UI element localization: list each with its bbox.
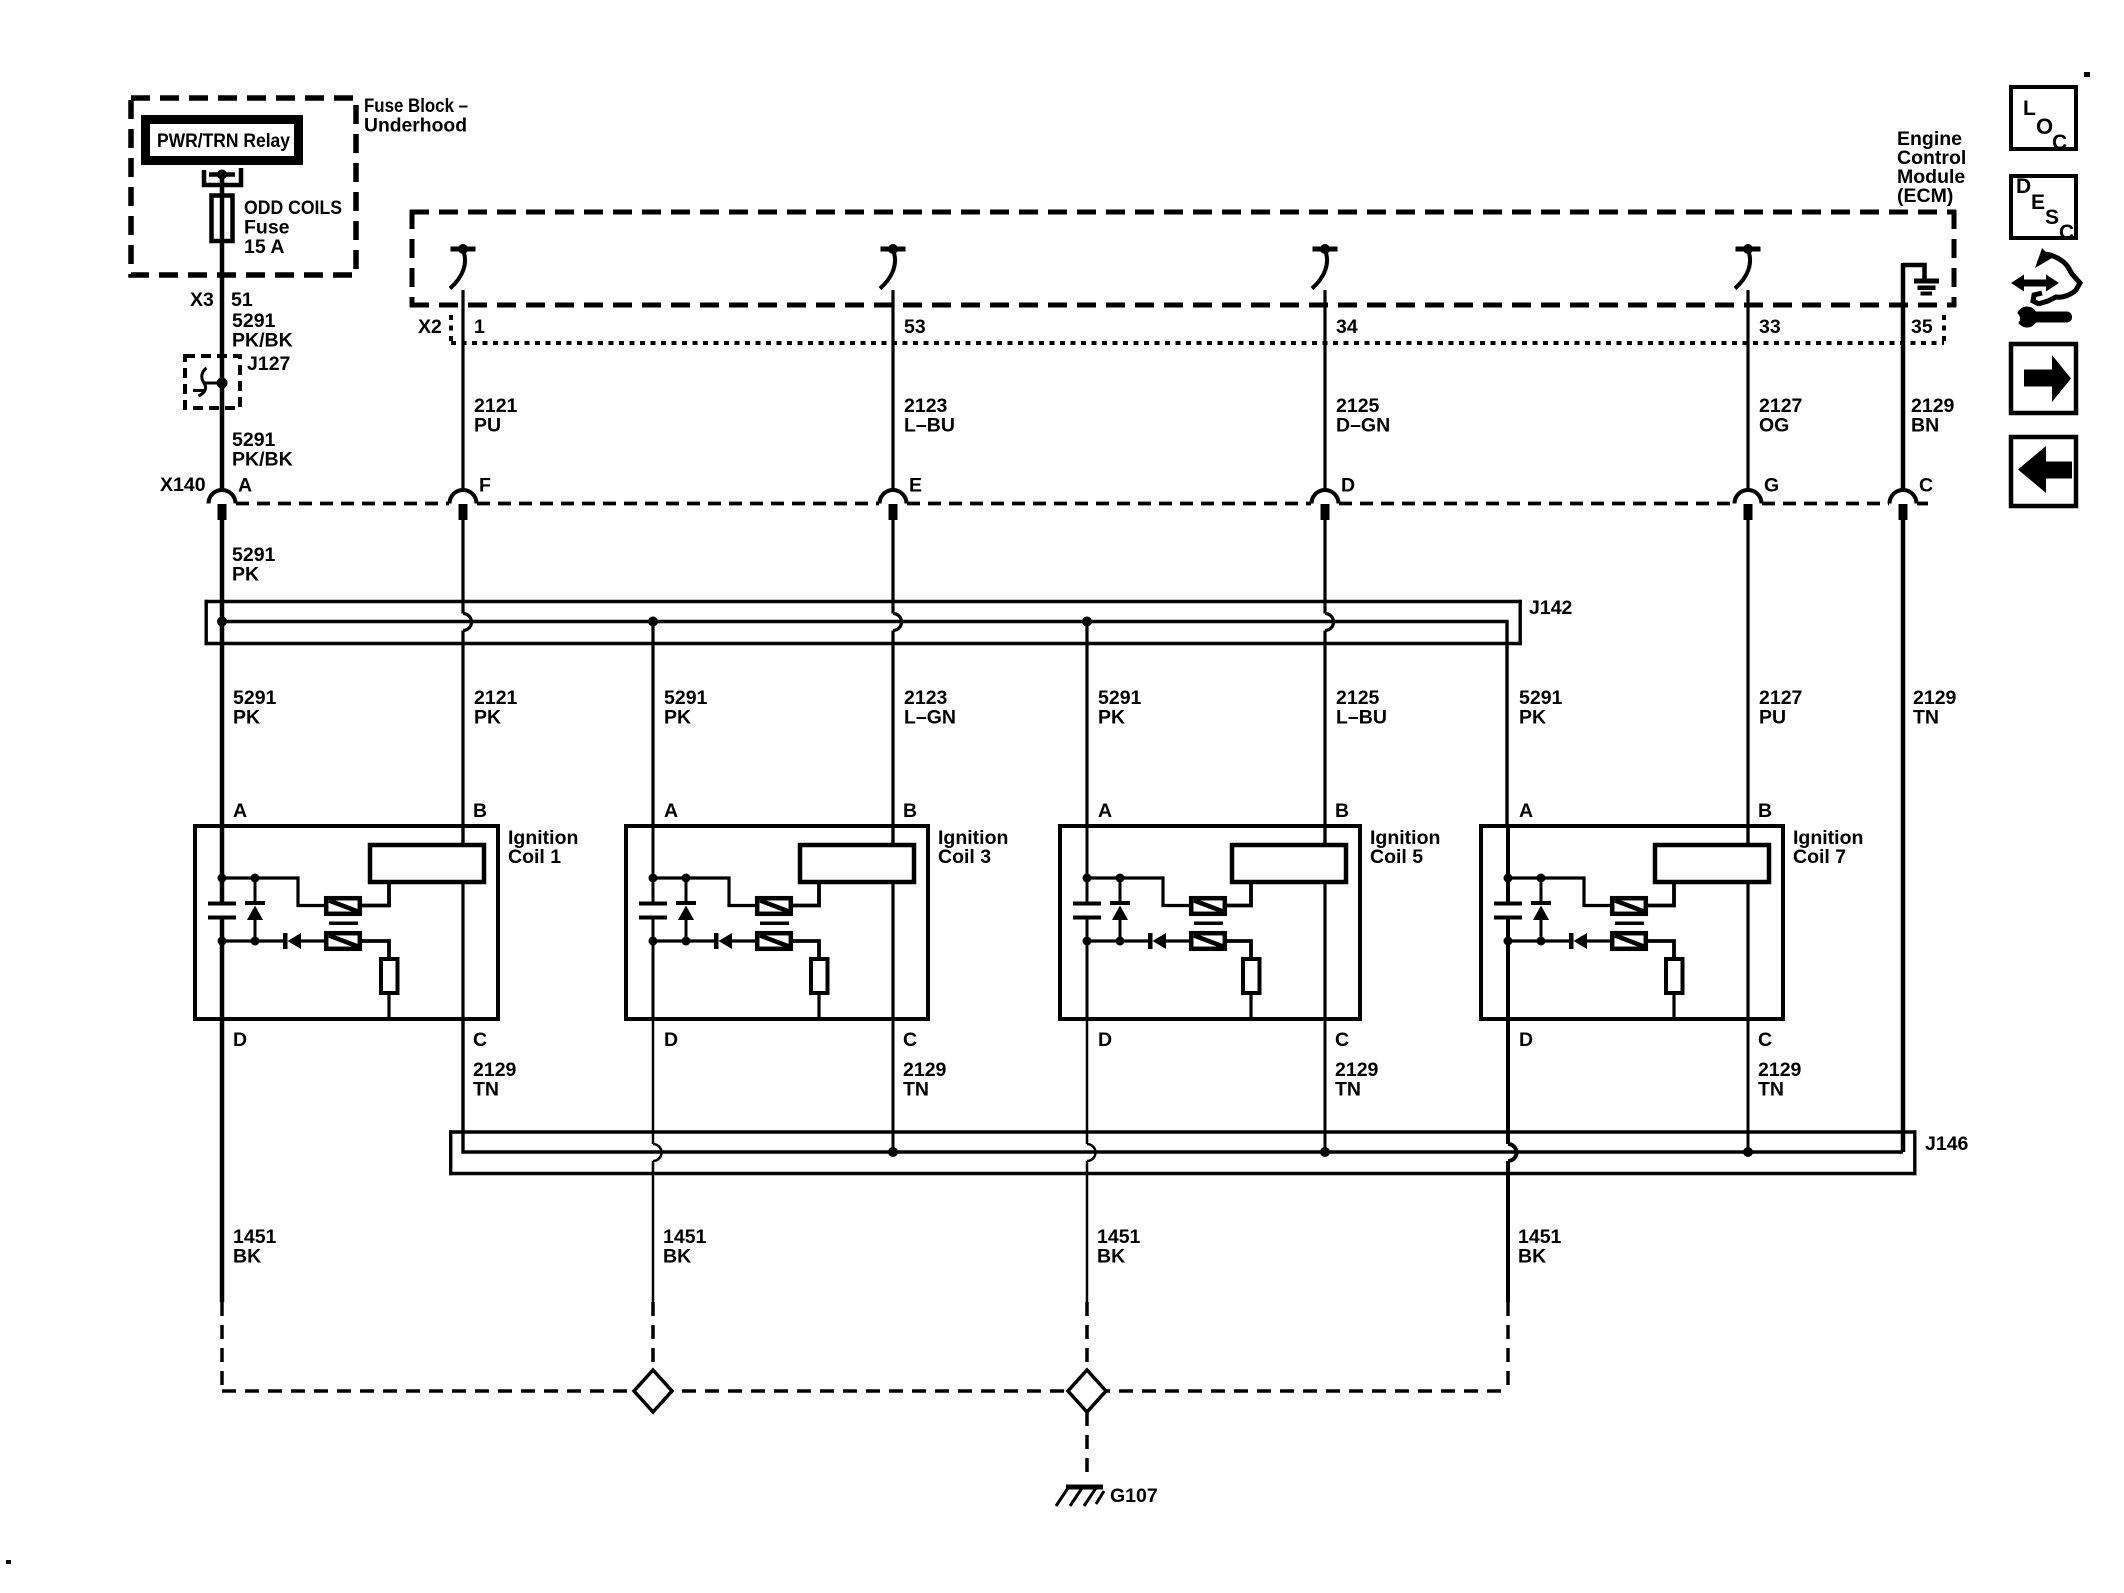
coil 7 secondary winding [1612, 933, 1646, 949]
svg-text:PK: PK [233, 707, 260, 729]
svg-text:TN: TN [1913, 707, 1939, 729]
coil 5 top internal wire [1087, 878, 1189, 906]
bus J142 outline [205, 600, 1523, 645]
coil 1 internal junction dots [218, 874, 260, 946]
wire label 2123 L–GN (row below J142) [904, 687, 956, 729]
svg-text:C: C [473, 1029, 487, 1051]
svg-text:B: B [473, 800, 487, 822]
wire label 2129 TN below coil pin C x=893 [903, 1059, 947, 1101]
svg-text:TN: TN [903, 1079, 929, 1101]
wire J142 hop down to coil pin B at x=1325 [1323, 631, 1326, 846]
coil 3 resistor [811, 959, 828, 993]
icon sketched arrow outline [2033, 248, 2080, 304]
coil 1 top internal wire [222, 878, 324, 906]
wire 2129 TN X140-C down to bus J146 [1901, 519, 1906, 1152]
coil 3 pin A internal wire [652, 826, 655, 1019]
label X2 and ECM pin numbers [418, 316, 1933, 338]
ECM box: Engine Control Module (dashed) [410, 210, 1956, 307]
label Ignition Coil 1 [508, 827, 578, 868]
svg-text:O: O [2036, 114, 2053, 139]
coil 5 wire secondary to resistor [1227, 941, 1251, 958]
wire hop over J142 at x=463 [463, 614, 472, 631]
coil 7 internal junction dots [1504, 874, 1546, 946]
svg-text:(ECM): (ECM) [1897, 185, 1953, 207]
splice J127 symbol [193, 368, 228, 396]
junction dot on J146 at x=1748 [1743, 1147, 1753, 1157]
label Ignition Coil 3 [938, 827, 1008, 868]
wire 2123 X140 to bus J142 crossing [891, 519, 894, 614]
ignition coil 5 box [1060, 826, 1360, 1019]
coil 1 lower internal wire with diode [222, 933, 324, 949]
svg-text:A: A [664, 800, 678, 822]
coil 3 primary winding [757, 898, 791, 914]
svg-text:PK: PK [232, 564, 259, 586]
dashed wire coil7 D to ground line [1506, 1302, 1510, 1391]
connector X3 pin 51 labels [190, 289, 253, 311]
coil 1 pin A internal wire [220, 826, 225, 1019]
coil 7 transformer core [1615, 921, 1644, 925]
wire label 2127 PU (row below J142) [1759, 687, 1802, 729]
wire 2125 X140 to bus J142 crossing [1323, 519, 1326, 614]
coil 1 transformer core [329, 921, 358, 925]
dashed wire coil1 D to ground line [220, 1302, 224, 1391]
coil 5 resistor [1243, 959, 1260, 993]
coil 1 HV terminal block [370, 845, 484, 882]
svg-text:C: C [2052, 131, 2067, 154]
svg-text:D: D [2016, 175, 2031, 198]
stray dot bottom left [6, 1560, 11, 1564]
coil 7 lower internal wire with diode [1508, 933, 1610, 949]
coil 1 wire resistor to case [387, 993, 390, 1019]
coil 7 wire primary to HV terminal [1648, 884, 1674, 906]
relay output terminal [204, 168, 241, 185]
svg-text:PWR/TRN Relay: PWR/TRN Relay [157, 130, 290, 152]
junction dot on J146 at x=893 [888, 1147, 898, 1157]
svg-text:TN: TN [473, 1079, 499, 1101]
svg-text:BK: BK [663, 1246, 691, 1268]
svg-text:L: L [2023, 97, 2036, 120]
svg-text:PK: PK [1098, 707, 1125, 729]
svg-text:35: 35 [1911, 316, 1933, 338]
coil 3 top internal wire [653, 878, 755, 906]
coil 1 zener diode [245, 878, 265, 941]
svg-text:G107: G107 [1110, 1485, 1158, 1507]
coil 3 pin B to pin C through wire [891, 826, 894, 1019]
coil 3 internal junction dots [649, 874, 691, 946]
coil 1 primary winding [326, 898, 360, 914]
coil 7 resistor [1666, 959, 1683, 993]
connector X140 pin C [1890, 490, 1917, 520]
connector X140 pin F [450, 490, 477, 520]
ground G107 symbol [1056, 1485, 1104, 1507]
icon schematic double-arrow [2011, 275, 2059, 292]
coil 7 capacitor [1494, 904, 1522, 918]
wire 2125 D–GN from ECM driver to X140 [1323, 290, 1326, 490]
svg-text:33: 33 [1759, 316, 1781, 338]
wire 5291 PK J142 to coil 3 pin A [651, 624, 654, 826]
svg-text:L–GN: L–GN [904, 707, 956, 729]
svg-text:L–BU: L–BU [1336, 707, 1387, 729]
coil 7 top internal wire [1508, 878, 1610, 906]
svg-text:C: C [1335, 1029, 1349, 1051]
wire hop over J142 at x=1325 [1325, 614, 1334, 631]
svg-text:BK: BK [1097, 1246, 1125, 1268]
coil 5 pin letters [1098, 800, 1349, 1051]
coil 3 wire resistor to case [817, 993, 820, 1019]
coil 3 transformer core [760, 921, 789, 925]
svg-text:D: D [664, 1029, 678, 1051]
wire J142 hop down to coil pin B at x=463 [461, 631, 464, 846]
coil 7 primary winding [1612, 898, 1646, 914]
label Engine Control Module (ECM) [1897, 128, 1966, 207]
svg-text:15 A: 15 A [244, 236, 284, 258]
coil 3 capacitor [639, 904, 667, 918]
coil 1 capacitor [208, 904, 236, 918]
wire label 2127 OG [1759, 395, 1802, 437]
wire 5291 PK J142 to coil 1 pin A [220, 624, 225, 826]
connector X140 dashed line [236, 502, 1928, 506]
dashed ground bus line [222, 1389, 1508, 1393]
ignition coil 7 box [1481, 826, 1783, 1019]
svg-text:PU: PU [1759, 707, 1786, 729]
wire label 2123 L–BU [904, 395, 955, 437]
svg-text:J127: J127 [247, 353, 290, 375]
svg-text:E: E [2031, 191, 2045, 214]
svg-text:C: C [1758, 1029, 1772, 1051]
coil 5 wire resistor to case [1249, 993, 1252, 1019]
wire label 5291 PK (row below J142) [1098, 687, 1142, 729]
coil 5 pin B to pin C through wire [1323, 826, 1326, 1019]
coil 5 primary winding [1191, 898, 1225, 914]
coil 1 wire secondary to resistor [362, 941, 389, 958]
svg-text:BK: BK [1518, 1246, 1546, 1268]
coil 1 pin letters [233, 800, 487, 1051]
wire label 2129 BN [1911, 395, 1955, 437]
connector X140 pin E [880, 490, 907, 520]
fuse F: ODD COILS 15 A [212, 195, 233, 243]
coil 3 HV terminal block [800, 845, 914, 882]
coil 5 wire primary to HV terminal [1227, 884, 1251, 906]
svg-text:Coil 3: Coil 3 [938, 846, 991, 868]
junction dot on J146 at x=1325 [1320, 1147, 1330, 1157]
bus J146 middle wire 2129 TN (turns up into coil 1 pin C wire) [463, 1019, 1903, 1152]
wire 2123 L–BU from ECM driver to X140 [891, 290, 894, 490]
wire label 5291 PK (row below J142) [1519, 687, 1563, 729]
svg-text:E: E [909, 475, 922, 497]
svg-text:Coil 1: Coil 1 [508, 846, 561, 868]
coil 5 transformer core [1194, 921, 1223, 925]
wire label 5291 PK/BK (lower) [232, 429, 293, 471]
svg-text:B: B [1758, 800, 1772, 822]
coil 5 lower internal wire with diode [1087, 933, 1189, 949]
splice diamond (right) [1068, 1370, 1106, 1412]
coil 1 wire primary to HV terminal [362, 884, 389, 906]
wire 2129 TN coil C to bus J146 at x=893 [892, 1019, 895, 1152]
wire label 5291 PK (row below J142) [233, 687, 277, 729]
svg-text:X3: X3 [190, 289, 214, 311]
svg-text:D–GN: D–GN [1336, 415, 1390, 437]
wire 1451 BK coil pin D down with hop over J146 at x=1087 [1087, 1019, 1096, 1302]
wire label 2125 D–GN [1336, 395, 1390, 437]
coil 3 pin letters [664, 800, 917, 1051]
junction dot on J142 at x=1087 [1082, 617, 1092, 627]
svg-text:A: A [233, 800, 247, 822]
junction dot on J142 at x=222 [217, 617, 227, 627]
wire 5291 PK/BK fuse to X140 (through X3 pin 51) [220, 241, 225, 490]
svg-text:PK/BK: PK/BK [232, 330, 293, 352]
dashed wire coil3 D to splice [651, 1302, 655, 1372]
relay PWR/TRN Relay [146, 120, 299, 161]
svg-text:D: D [1519, 1029, 1533, 1051]
svg-text:TN: TN [1758, 1079, 1784, 1101]
svg-text:53: 53 [904, 316, 926, 338]
bus J146 outline [449, 1130, 1917, 1175]
stray dot top right [2084, 72, 2090, 77]
label ODD COILS Fuse 15 A [244, 197, 342, 258]
wire label 5291 PK/BK (upper) [232, 310, 293, 352]
junction dot on J142 at x=653 [648, 617, 658, 627]
coil 7 HV terminal block [1655, 845, 1769, 882]
coil 5 HV terminal block [1232, 845, 1346, 882]
svg-text:S: S [2045, 206, 2059, 229]
label Fuse Block - Underhood [364, 95, 468, 137]
coil 1 pin B to pin C through wire [461, 826, 464, 1019]
wire J142 hop down to coil pin B at x=893 [891, 631, 894, 846]
coil 7 pin A internal wire [1506, 826, 1510, 1019]
coil 7 zener diode [1531, 878, 1551, 941]
svg-text:PK: PK [664, 707, 691, 729]
wire 1451 BK coil pin D down with hop over J146 at x=653 [653, 1019, 662, 1302]
ECM driver (coil 7 control, pin 33) [1735, 244, 1761, 289]
connector X140 pin D [1312, 490, 1339, 520]
svg-text:J142: J142 [1529, 597, 1573, 619]
coil 3 zener diode [676, 878, 696, 941]
coil 5 capacitor [1073, 904, 1101, 918]
wire label 1451 BK x=1518 [1518, 1226, 1562, 1268]
connector X2 line (dotted) [451, 312, 1944, 343]
svg-text:51: 51 [231, 289, 253, 311]
svg-text:1: 1 [474, 316, 485, 338]
wire label 1451 BK x=1097 [1097, 1226, 1141, 1268]
svg-text:A: A [1098, 800, 1112, 822]
svg-text:TN: TN [1335, 1079, 1361, 1101]
coil 7 wire resistor to case [1672, 993, 1675, 1019]
dashed wire splice to ground G107 [1085, 1412, 1089, 1481]
icon box back arrow [2011, 437, 2076, 506]
svg-text:X2: X2 [418, 316, 442, 338]
svg-text:L–BU: L–BU [904, 415, 955, 437]
wire label 2129 TN (row below J142) [1913, 687, 1957, 729]
coil 1 secondary winding [326, 933, 360, 949]
wire 5291 PK J142 to coil 5 pin A [1085, 624, 1088, 826]
svg-text:D: D [1098, 1029, 1112, 1051]
ECM internal ground at pin 35 [1903, 265, 1939, 296]
svg-text:B: B [1335, 800, 1349, 822]
splice diamond (left) [634, 1370, 672, 1412]
wire label 2121 PU [474, 395, 518, 437]
svg-text:C: C [903, 1029, 917, 1051]
connector X140 pin A [209, 490, 236, 520]
coil 1 resistor [381, 959, 398, 993]
wire relay to fuse [220, 177, 225, 196]
ignition coil 3 box [626, 826, 928, 1019]
wire label 2129 TN below coil pin C x=1325 [1335, 1059, 1379, 1101]
wire hop over J142 at x=893 [893, 614, 902, 631]
wire label 5291 PK (X140 to J142) [232, 544, 276, 586]
wire label 2121 PK (row below J142) [474, 687, 518, 729]
wire label 2125 L–BU (row below J142) [1336, 687, 1387, 729]
wire label 1451 BK x=663 [663, 1226, 707, 1268]
svg-text:C: C [1919, 475, 1933, 497]
coil 7 wire secondary to resistor [1648, 941, 1674, 958]
ECM driver (coil 1 control, pin 1) [450, 244, 476, 289]
connector X140 pin G [1735, 490, 1762, 520]
coil 5 zener diode [1110, 878, 1130, 941]
svg-text:PK: PK [474, 707, 501, 729]
svg-text:PU: PU [474, 415, 501, 437]
icon wrench [2007, 307, 2072, 328]
svg-text:Underhood: Underhood [364, 115, 467, 137]
coil 5 secondary winding [1191, 933, 1225, 949]
wire 2121 X140 to bus J142 crossing [461, 519, 464, 614]
svg-text:G: G [1764, 475, 1779, 497]
svg-text:PK/BK: PK/BK [232, 449, 293, 471]
ECM driver (coil 3 control, pin 53) [880, 244, 906, 289]
ignition coil 1 box [195, 826, 498, 1019]
svg-text:D: D [1341, 475, 1355, 497]
bus J142 middle wire 5291 PK [222, 622, 1507, 827]
dashed wire coil5 D to splice [1085, 1302, 1089, 1372]
coil 3 lower internal wire with diode [653, 933, 755, 949]
svg-text:X140: X140 [160, 474, 206, 496]
svg-text:OG: OG [1759, 415, 1789, 437]
icon box LOC [2011, 87, 2076, 154]
coil 5 pin A internal wire [1086, 826, 1089, 1019]
svg-text:Coil 5: Coil 5 [1370, 846, 1423, 868]
coil 7 pin letters [1519, 800, 1772, 1051]
svg-text:J146: J146 [1925, 1133, 1969, 1155]
coil 7 pin B to pin C through wire [1746, 826, 1749, 1019]
svg-text:BK: BK [233, 1246, 261, 1268]
wire 2129 TN coil C to bus J146 at x=1748 [1747, 1019, 1750, 1152]
svg-text:D: D [233, 1029, 247, 1051]
wire 2127 OG from ECM driver to X140 [1746, 290, 1749, 490]
svg-text:BN: BN [1911, 415, 1939, 437]
svg-text:34: 34 [1336, 316, 1358, 338]
svg-text:C: C [2059, 221, 2074, 244]
coil 3 secondary winding [757, 933, 791, 949]
svg-text:Coil 7: Coil 7 [1793, 846, 1846, 868]
wire 2129 BN from ECM pin 35 to X140 [1901, 263, 1906, 490]
svg-text:B: B [903, 800, 917, 822]
label Ignition Coil 7 [1793, 827, 1863, 868]
fuse block box: Fuse Block - Underhood [131, 98, 356, 275]
icon box DESC [2011, 175, 2076, 244]
wire 1451 BK coil 1 pin D down [220, 1019, 225, 1302]
svg-text:A: A [1519, 800, 1533, 822]
coil 3 wire primary to HV terminal [793, 884, 819, 906]
ECM driver (coil 5 control, pin 34) [1312, 244, 1338, 289]
wire label 5291 PK (row below J142) [664, 687, 708, 729]
svg-text:PK: PK [1519, 707, 1546, 729]
svg-text:F: F [479, 475, 491, 497]
splice J127 box [185, 356, 240, 408]
wire 1451 BK coil pin D down with hop over J146 at x=1508 [1508, 1019, 1517, 1302]
wire 2129 TN coil C to bus J146 at x=1325 [1324, 1019, 1327, 1152]
icon box forward arrow [2011, 344, 2076, 413]
wire 2127 X140-G to coil 7 pin B [1746, 519, 1749, 845]
wire label 2129 TN below coil pin C x=463 [473, 1059, 517, 1101]
coil 5 internal junction dots [1083, 874, 1125, 946]
wire label 1451 BK x=233 [233, 1226, 277, 1268]
label Ignition Coil 5 [1370, 827, 1440, 868]
svg-text:A: A [238, 475, 252, 497]
coil 3 wire secondary to resistor [793, 941, 819, 958]
wire 5291 PK X140-A to bus J142 [220, 519, 225, 622]
wire label 2129 TN below coil pin C x=1748 [1758, 1059, 1802, 1101]
wire 2121 PU from ECM driver to X140 [461, 290, 464, 490]
